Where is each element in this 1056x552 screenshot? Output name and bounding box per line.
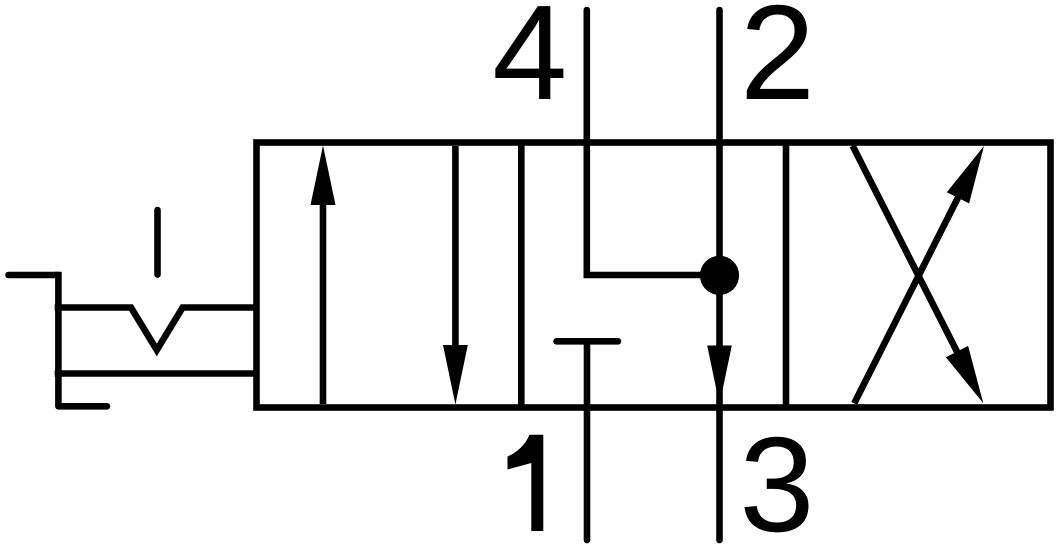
arrowhead down-right, right position [946,346,983,403]
position divider left [518,143,525,408]
detent rail bottom [55,370,257,377]
port label 1 [508,435,544,531]
lever bottom foot [58,403,107,410]
arrowhead up, left position [311,146,336,206]
blocked port 1 tee bar [557,338,619,345]
crossed flow arrow (down-right), right position: shaft [853,146,959,356]
detent notch rail (top, with V notch) [55,308,257,351]
svg-text:3: 3 [739,409,814,552]
lever arm top segment [9,272,59,279]
svg-text:2: 2 [740,0,815,128]
valve body (3-position envelope) [257,143,1051,408]
port 2 to port 3 through-line [716,10,723,540]
detent pin [154,210,161,275]
arrowhead up-right, right position [947,146,984,203]
flow path arrow up, left position: shaft [320,202,327,404]
arrowhead down, left position [443,345,468,405]
flow path arrow down, left position: shaft [452,146,459,348]
svg-text:4: 4 [492,0,567,128]
arrowhead down at port 3, middle position [707,346,732,405]
position divider right [783,143,790,408]
lever vertical bar [55,272,62,407]
junction dot (ports 4-2 connection) [700,256,739,295]
crossed flow arrow (up-right), right position: shaft [854,194,960,404]
port 4 line (top stub and internal elbow) [587,10,720,275]
port 1 line (blocked) [584,341,591,540]
